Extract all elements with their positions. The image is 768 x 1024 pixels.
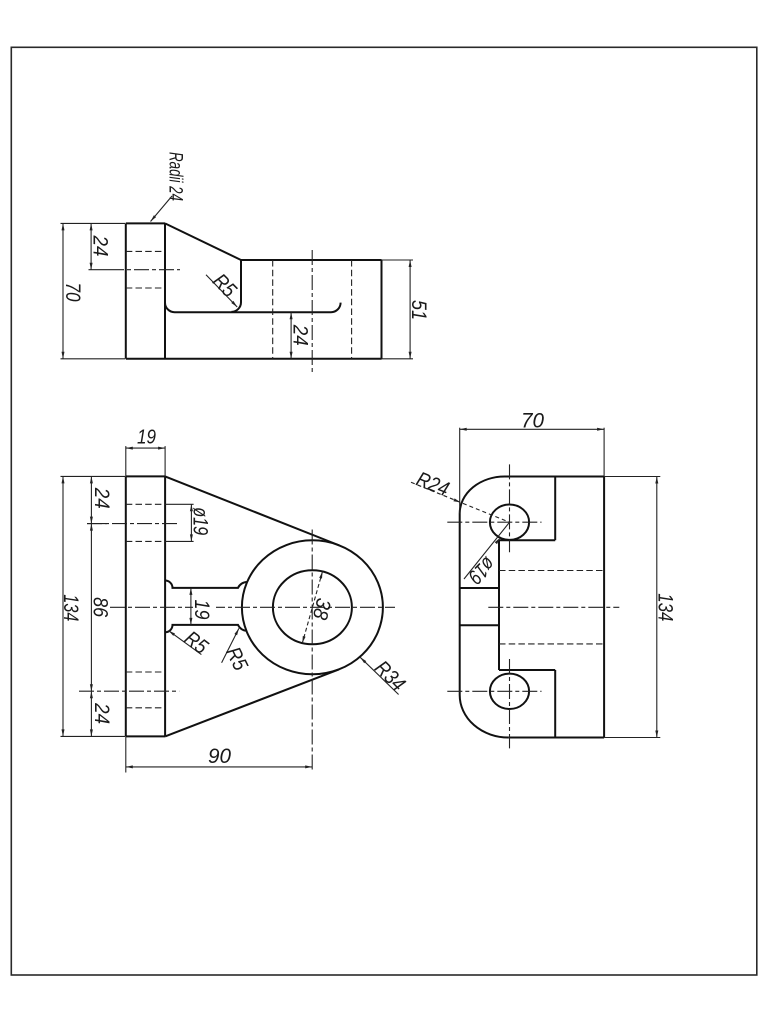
- svg-text:R5: R5: [180, 627, 212, 659]
- svg-text:24: 24: [289, 324, 312, 346]
- svg-text:51: 51: [407, 300, 430, 320]
- svg-text:24: 24: [89, 235, 112, 257]
- svg-text:24: 24: [90, 702, 113, 724]
- svg-text:24: 24: [90, 487, 113, 509]
- svg-text:ø19: ø19: [463, 552, 499, 588]
- svg-text:Radii 24: Radii 24: [165, 152, 186, 201]
- svg-text:134: 134: [59, 594, 82, 621]
- svg-text:70: 70: [521, 409, 544, 432]
- svg-text:90: 90: [208, 745, 231, 768]
- svg-text:ø19: ø19: [188, 507, 211, 535]
- svg-text:19: 19: [137, 427, 156, 449]
- svg-text:86: 86: [89, 597, 112, 617]
- svg-text:70: 70: [61, 283, 84, 302]
- svg-text:R34: R34: [370, 656, 410, 696]
- svg-text:134: 134: [654, 593, 677, 621]
- svg-text:R5: R5: [208, 269, 241, 302]
- svg-text:R5: R5: [221, 643, 252, 674]
- svg-text:19: 19: [190, 600, 213, 620]
